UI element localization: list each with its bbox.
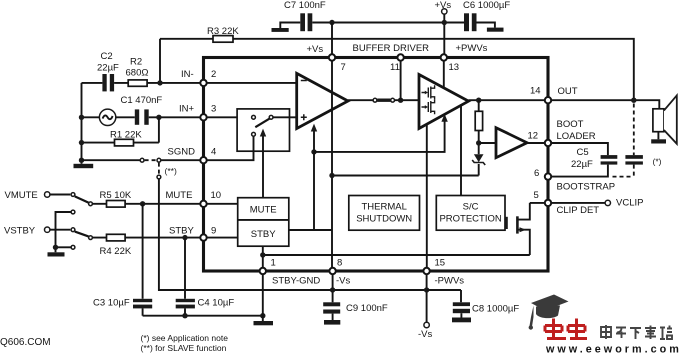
note footnotes [141,333,229,353]
svg-text:MUTE: MUTE [166,190,193,201]
wire IN- feedback tap vertical [159,39,161,83]
diode zener internal [472,154,485,175]
svg-text:15: 15 [435,258,446,269]
svg-text:+PWVs: +PWVs [456,43,488,54]
terminal VSTBY [45,227,50,232]
node pin1 [260,268,266,274]
wire to boot driver input [479,142,496,144]
wire internal supply vertical pin7-pin8 [331,23,333,272]
transistor clip detect mosfet [507,203,530,255]
svg-text:S/C: S/C [463,202,479,213]
signal generator [99,109,115,125]
node pin10 [200,201,206,207]
svg-text:C7 100nF: C7 100nF [284,0,326,11]
node internal supply junction [329,173,334,178]
capacitor C5 [601,155,618,164]
svg-text:11: 11 [390,62,400,73]
wire switch lower contact to pin4 SGND [204,136,254,160]
wire MUTE row [92,203,203,205]
speaker [651,95,677,143]
box thermal shutdown [349,196,420,231]
capacitor C7 [284,0,326,31]
wire dashed optional bootstrap [633,104,635,156]
resistor R1 [110,130,142,146]
svg-text:8: 8 [337,258,342,269]
wire C6 to ground [477,23,495,28]
wire SGND row [82,159,204,161]
node pin9 [200,234,206,240]
arrow bias into power amp [441,114,447,122]
svg-text:VMUTE: VMUTE [5,190,38,201]
wire R1 row [82,117,159,142]
wire pin3 to switch [204,116,252,118]
logo site name characters [601,325,672,339]
node pin15 [423,268,429,274]
svg-text:22µF: 22µF [571,159,593,170]
svg-text:13: 13 [449,62,460,73]
ground input bus [74,164,94,168]
node pin12 [545,140,551,146]
svg-text:3: 3 [211,104,216,115]
wire pin13 into power amp [443,58,445,89]
link SGND circles [140,158,161,162]
logo graduation cap [529,295,569,330]
wire C3 C4 ground rail [143,315,263,317]
node pin15 -Vs junction [424,287,429,292]
svg-text:12: 12 [528,131,539,142]
wire boot driver to pin12 [527,142,548,144]
svg-text:SHUTDOWN: SHUTDOWN [356,214,412,225]
svg-text:22µF: 22µF [97,63,119,74]
terminal VMUTE [45,192,50,197]
wire pin15 external vertical [426,271,428,322]
svg-text:www.eeworm.com: www.eeworm.com [545,344,680,355]
node bias junction U1 [311,149,316,154]
wire SLAVE link vertical to -Vs rail [159,179,461,290]
power amp U2 [419,75,469,129]
node generator left junction [79,115,84,120]
node pin2 [200,80,206,86]
node pin11 junction [398,98,403,103]
wire -PWVs internal vertical [426,124,428,271]
node pin13 [441,54,447,60]
svg-text:R4 22K: R4 22K [100,246,132,257]
node out feedback junction [631,98,636,103]
wire IN- input row [82,82,204,84]
node R2-R3 junction [157,80,162,85]
op-amp boot loader driver [496,128,527,158]
wire C8 branch [427,290,461,302]
op-amp U1 input stage [297,73,348,128]
node stby-gnd junction [260,252,265,257]
node output junction [476,98,481,103]
node pin4 [200,157,206,163]
node pin14 [545,97,551,103]
wire pin9 to stby box [204,237,238,239]
wire pin14 out row [548,100,659,109]
svg-text:R5 10K: R5 10K [100,190,132,201]
wire C7 to ground [280,23,300,29]
svg-text:(*): (*) [653,157,662,167]
svg-text:9: 9 [211,226,216,237]
pin labels bottom [271,258,465,287]
svg-text:1: 1 [271,258,276,269]
node pin5 [545,200,551,206]
svg-text:-Vs: -Vs [418,329,433,340]
wire bias rail to power amp [314,121,445,152]
wire left input bus vertical [81,83,83,164]
wire mosfet source to stby-gnd [263,254,530,256]
arrow mute control to switch [260,129,266,198]
svg-text:+Vs: +Vs [435,0,452,11]
resistor R2 [126,57,149,87]
wire SC sense vertical [460,105,462,195]
svg-text:C1 470nF: C1 470nF [121,95,163,106]
capacitor C8 [452,302,519,322]
svg-text:C2: C2 [101,51,113,62]
wire +Vs terminal to pin13 [443,14,445,57]
node R1 left junction [79,140,84,145]
node pin8 -Vs junction [330,287,335,292]
svg-text:Q606.COM: Q606.COM [0,337,51,348]
link jumper [373,98,394,102]
resistor R5 [100,190,132,207]
svg-text:4: 4 [211,147,216,158]
svg-text:2: 2 [211,69,216,80]
terminal VCLIP [605,200,610,205]
wire pin11 vertical [400,58,402,101]
svg-text:680Ω: 680Ω [126,68,149,79]
node C4 ground junction [182,313,187,318]
capacitor optional dashed [612,155,662,177]
wire pin5 clip det [530,202,605,204]
svg-text:C5: C5 [577,147,589,158]
terminal +Vs [435,0,452,14]
node +Vs junction C7 [329,20,334,25]
svg-text:C9 100nF: C9 100nF [346,303,388,314]
pin labels right [528,86,644,217]
wire pin10 to mute box [204,203,238,205]
ground C7 [272,28,289,32]
capacitor C9 [323,302,388,324]
svg-text:-PWVs: -PWVs [435,276,465,287]
wire mute-stby block to bias rail [289,152,332,230]
wire link to power amp input [395,99,420,101]
capacitor C4 [176,298,235,309]
box mute stby [238,198,289,247]
svg-text:(**) for SLAVE function: (**) for SLAVE function [141,343,227,353]
svg-text:BUFFER DRIVER: BUFFER DRIVER [353,43,430,54]
capacitor C2 [97,51,119,91]
wire C4 vertical [184,238,186,316]
wire SLAVE dashed drop [158,163,160,175]
svg-text:-Vs: -Vs [336,276,351,287]
svg-text:14: 14 [530,86,541,97]
terminal -Vs [418,322,433,340]
ground pin1 [254,321,274,325]
node pin1 ground junction [260,313,265,318]
switch box input mute [237,109,289,151]
svg-text:BOOT: BOOT [557,119,584,130]
node +Vs rail junction [442,20,447,25]
node SLAVE circle [157,175,161,179]
svg-text:VCLIP: VCLIP [616,198,643,209]
ground C6 [487,28,504,32]
wire mute-stby box bottom to pin1 [262,246,264,271]
IC package outline [204,58,549,272]
svg-text:IN-: IN- [181,69,194,80]
svg-text:(**): (**) [165,166,177,176]
node SGND tap junction [79,158,84,163]
switch VMUTE [50,193,93,206]
svg-text:BOOTSTRAP: BOOTSTRAP [557,182,616,193]
svg-text:7: 7 [341,62,346,73]
svg-text:C4 10µF: C4 10µF [198,298,235,309]
svg-text:C8 1000µF: C8 1000µF [472,304,519,315]
svg-text:R2: R2 [130,57,142,68]
svg-text:CLIP DET: CLIP DET [557,205,600,216]
svg-text:OUT: OUT [558,86,578,97]
node pin11 [397,54,403,60]
wire internal bias horizontal [332,175,479,177]
svg-text:IN+: IN+ [179,104,195,115]
svg-text:R3 22K: R3 22K [207,26,239,37]
wire pin1 to ground [262,271,264,321]
svg-text:PROTECTION: PROTECTION [439,214,501,225]
node pin6 [545,173,551,179]
capacitor C1 [121,95,163,125]
svg-text:MUTE: MUTE [250,205,277,216]
node pin7 [329,54,335,60]
wire pin8 external vertical [332,271,334,302]
svg-text:STBY-GND: STBY-GND [272,276,320,287]
box short circuit protection [436,196,505,231]
svg-text:C6 1000µF: C6 1000µF [463,0,510,11]
node C4 tap junction [182,235,187,240]
switch VSTBY [50,228,93,240]
svg-text:VSTBY: VSTBY [4,226,36,237]
resistor R4 [100,234,132,257]
wire C3 vertical [142,204,144,316]
svg-text:5: 5 [534,190,539,201]
node pin8 [329,268,335,274]
ground switch bus [48,252,65,256]
svg-text:SGND: SGND [168,147,196,158]
capacitor C6 [463,0,510,31]
wire +Vs rail top [312,22,464,24]
wire IN+ input row [82,116,204,118]
resistor internal bootstrap [475,100,482,154]
resistor R3 [207,26,239,42]
node C3 tap junction [140,201,145,206]
wire power amp output to pin14 [469,99,549,101]
svg-text:STBY: STBY [251,229,276,240]
svg-text:+Vs: +Vs [307,44,324,55]
pin labels left [166,69,222,237]
svg-text:10: 10 [211,190,222,201]
node C1 right junction [156,115,161,120]
node pin3 [200,114,206,120]
wire switch to opamp noninverting input [273,116,297,118]
pin labels top [307,43,488,73]
svg-text:C3 10µF: C3 10µF [93,298,130,309]
arrow bias into opamp U1 [311,124,317,152]
wire U1 output to link [348,99,373,101]
wire pin2 to opamp inverting input [204,82,297,84]
svg-text:6: 6 [534,168,539,179]
switch ground contacts [53,210,75,252]
svg-text:STBY: STBY [169,226,194,237]
svg-text:(*) see Application note: (*) see Application note [141,333,229,343]
svg-text:THERMAL: THERMAL [361,202,406,213]
wire pin12 to C5 [548,143,608,155]
svg-text:R1 22K: R1 22K [110,130,142,141]
wire STBY row [92,237,203,239]
wire R3 feedback IN- to OUT [160,39,634,100]
logo chongchong red characters [545,319,587,339]
capacitor C3 [93,298,152,309]
svg-text:LOADER: LOADER [557,131,596,142]
node boot divider junction [476,140,481,145]
wire C5 to pin6 [548,165,608,177]
